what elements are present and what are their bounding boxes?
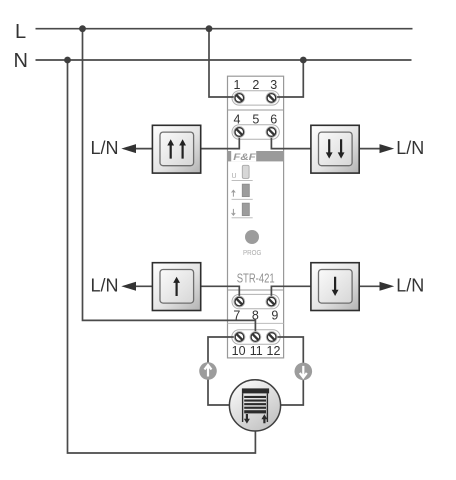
wire terminal 10 to motor left <box>208 337 240 405</box>
LED U underline <box>232 180 253 182</box>
F&F logo band <box>228 151 284 163</box>
wire N feed to terminal 3 <box>272 60 303 97</box>
terminal screw 12 <box>266 332 277 343</box>
terminal screw 4 <box>234 127 245 138</box>
LED down <box>242 203 249 215</box>
node junction N at x67 <box>64 57 71 64</box>
terminal strip 4-6 stadium <box>232 125 279 139</box>
svg-text:L/N: L/N <box>396 276 424 296</box>
svg-text:4: 4 <box>234 113 241 127</box>
wire terminal 9 to button down <box>271 286 311 301</box>
svg-text:5: 5 <box>252 113 259 127</box>
arrow to L/N lower-left <box>121 282 136 291</box>
node junction L at x209 <box>206 25 213 32</box>
node junction L at x82 <box>79 25 86 32</box>
button S3 single-up <box>152 263 200 311</box>
LED down underline <box>232 217 253 219</box>
terminal strip 10-12 stadium <box>232 330 280 344</box>
terminal screw 10 <box>234 332 245 343</box>
svg-text:9: 9 <box>271 309 278 323</box>
terminal screw 3 <box>266 93 277 104</box>
button S2 double-down <box>311 125 359 173</box>
svg-text:L/N: L/N <box>396 138 424 158</box>
svg-text:PROG: PROG <box>243 250 262 257</box>
button S4 single-down <box>311 263 359 311</box>
svg-text:12: 12 <box>267 344 281 358</box>
wire button up-up stub to L/N arrow <box>134 148 152 150</box>
node junction N at x303 <box>300 57 307 64</box>
wire button down-down stub to L/N arrow <box>359 148 380 150</box>
LED up underline <box>232 198 253 200</box>
wire L bus <box>36 28 413 30</box>
indicator circle down (right) <box>295 363 313 381</box>
device body STR-421 outline <box>228 76 284 358</box>
svg-text:11: 11 <box>250 344 263 358</box>
wire terminal 6 to button down-down <box>271 132 311 149</box>
wire N bus <box>36 59 412 61</box>
terminal strip 1-3 stadium <box>232 91 279 105</box>
LED up label <box>232 190 236 196</box>
PROG button circle <box>245 230 259 244</box>
svg-text:10: 10 <box>232 344 246 358</box>
svg-text:L/N: L/N <box>90 138 118 158</box>
terminal screw 1 <box>234 93 245 104</box>
terminal screw 9 <box>266 296 277 307</box>
wire N feed to motor <box>68 60 256 453</box>
LED U <box>242 165 249 178</box>
svg-text:1: 1 <box>234 78 241 92</box>
svg-text:N: N <box>14 50 28 72</box>
terminal strip 7-9 stadium <box>232 294 279 308</box>
svg-text:3: 3 <box>270 78 277 92</box>
divider body / terminal 7-9 <box>228 289 284 291</box>
arrow to L/N upper-left <box>121 144 136 153</box>
terminal screw 11 <box>250 332 261 343</box>
indicator circle up (left) <box>199 362 217 380</box>
svg-text:6: 6 <box>270 113 277 127</box>
LED down label <box>232 209 236 215</box>
svg-text:STR-421: STR-421 <box>237 271 275 286</box>
wire button up stub to L/N arrow <box>134 285 152 287</box>
wire button down stub to L/N arrow <box>359 285 380 287</box>
wire L feed to terminal 1 <box>209 29 237 97</box>
wire terminal 4 to button up-up <box>200 132 239 149</box>
motor M roller shutter <box>229 380 280 431</box>
arrow to L/N lower-right <box>380 282 395 291</box>
terminal screw 6 <box>266 127 277 138</box>
terminal screw 7 <box>234 296 245 307</box>
arrow to L/N upper-right <box>380 144 395 153</box>
LED up <box>242 184 249 196</box>
svg-text:L: L <box>15 21 26 43</box>
wire terminal 12 to motor right <box>272 337 304 405</box>
svg-text:U: U <box>232 173 237 180</box>
svg-text:F&F: F&F <box>233 152 256 163</box>
divider terminal 1-3 / 4-6 <box>228 109 284 111</box>
divider terminal 7-9 / 10-12 <box>228 322 284 324</box>
svg-text:L/N: L/N <box>90 276 118 296</box>
button S1 double-up <box>152 125 200 173</box>
wire terminal 7 to button up <box>200 286 239 301</box>
wire L feed to terminal 11 <box>83 29 256 336</box>
svg-text:2: 2 <box>252 78 259 92</box>
